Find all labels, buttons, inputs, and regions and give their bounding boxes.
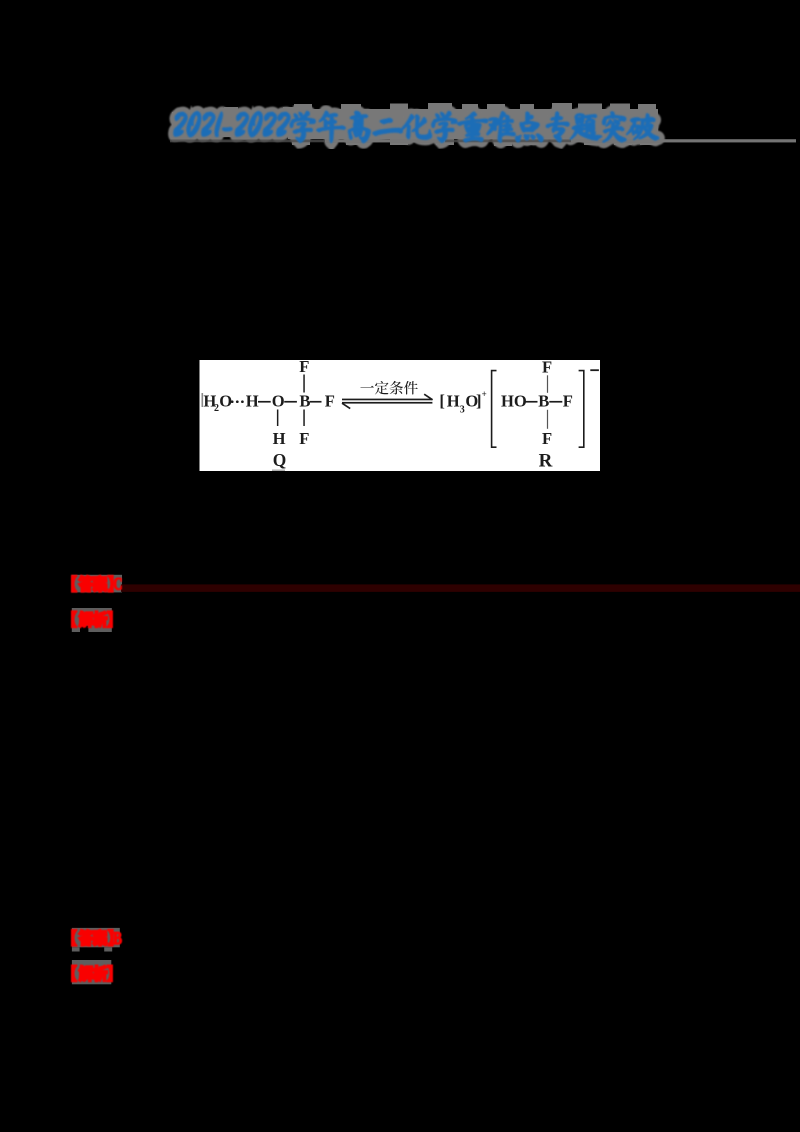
explanation 1 grey highlight: [72, 608, 112, 632]
svg-text:[: [: [439, 392, 445, 411]
svg-text:H: H: [447, 392, 460, 411]
svg-text:O: O: [219, 392, 232, 411]
svg-text:F: F: [299, 357, 309, 376]
svg-text:B: B: [299, 392, 310, 411]
svg-text:F: F: [542, 429, 552, 448]
svg-text:B: B: [538, 392, 549, 411]
answer 1 grey highlight: [72, 575, 123, 593]
superscript minus charge: [590, 369, 599, 371]
explanation 1 text 【解析】: [72, 611, 112, 627]
svg-text:F: F: [325, 392, 335, 411]
F below B (anion): [547, 410, 548, 429]
svg-text:F: F: [299, 429, 309, 448]
explanation 2 grey highlight: [72, 960, 111, 984]
svg-text:3: 3: [460, 405, 465, 416]
H below O: [277, 410, 279, 427]
chemistry figure white background: [200, 360, 601, 471]
svg-text:H: H: [273, 429, 286, 448]
svg-text:O: O: [272, 392, 285, 411]
equilibrium arrows: [342, 399, 432, 401]
explanation 2 text 【解析】: [72, 965, 112, 981]
title text 2021-2022学年高二化学重难点专题突破: [173, 111, 659, 142]
svg-text:F: F: [542, 358, 552, 377]
title underline artifact: [170, 140, 796, 143]
svg-text:F: F: [563, 392, 573, 411]
condition text 一定条件: [360, 386, 373, 388]
answer 1 text 【答案】C: [72, 576, 122, 592]
svg-text:R: R: [539, 451, 553, 472]
cursor artifact line: [202, 393, 204, 407]
answer 2 text 【答案】B: [72, 930, 122, 946]
svg-text:+: +: [482, 389, 487, 399]
svg-text:Q: Q: [273, 450, 287, 470]
svg-text:H: H: [246, 392, 259, 411]
svg-text:HO: HO: [501, 392, 527, 411]
anion R bracket left: [492, 371, 497, 448]
F below B: [303, 410, 305, 427]
answer 2 grey highlight: [72, 928, 120, 947]
title grey halo band: [172, 112, 286, 137]
anion R bracket right: [579, 371, 584, 448]
dark red answer line: [121, 584, 800, 592]
